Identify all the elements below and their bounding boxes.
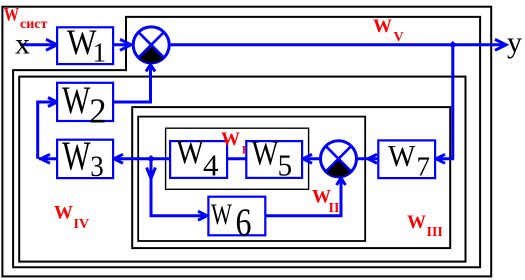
svg-text:W: W [62,79,90,122]
node branch to W6 [147,155,155,163]
node feedback tap [449,41,457,49]
svg-text:3: 3 [90,150,104,183]
svg-text:II: II [329,201,340,216]
arrow W7 to sum2 [368,154,377,163]
wire W4 to W3 [113,157,169,160]
wire branch down [150,159,153,216]
arrow into sum2 bottom [337,178,346,185]
svg-text:III: III [427,225,443,240]
arrow into W3 [114,154,123,163]
arrow W3 out [41,154,50,163]
summing junction sum1 [133,27,169,63]
block W4 [170,134,227,183]
svg-text:5: 5 [278,149,293,183]
wire sum1 to y output [170,43,503,46]
block W1 [57,22,113,68]
boundary rect W_I [166,128,309,189]
boundary rect W_II [138,117,365,241]
svg-text:6: 6 [236,200,252,244]
svg-text:1: 1 [93,38,107,68]
svg-text:4: 4 [203,149,219,183]
wire W2 out [112,65,151,102]
svg-text:x: x [15,28,30,61]
svg-text:7: 7 [417,151,431,181]
arrow into W5 [303,154,312,163]
arrow into sum1 bottom [146,65,155,72]
svg-text:W: W [388,139,416,173]
block W6 [208,197,265,244]
label W_IV [54,203,89,233]
arrow y output [495,39,506,50]
wire sum2 to W5 [303,157,321,160]
arrow into sum1 [120,39,131,50]
label W_sist [4,5,48,32]
wire W7 to sum2 [357,157,378,160]
svg-text:W: W [252,134,279,172]
boundary polygon W_V (stepped) [13,17,480,267]
wire W6 out [266,179,341,216]
wire W3 to W2 riser [38,102,56,159]
svg-text:W: W [54,203,73,224]
svg-text:y: y [507,26,522,59]
arrow into W1 [46,39,57,50]
svg-text:сист: сист [20,17,47,32]
svg-text:W: W [221,129,240,150]
block W5 [246,134,302,182]
wire W1 to sum1 [113,43,133,46]
svg-text:IV: IV [74,217,90,232]
svg-text:W: W [4,5,19,26]
svg-text:V: V [394,30,404,45]
wire W3 out left [39,157,57,160]
wire feedback drop [451,45,454,159]
summing junction sum2 [321,141,357,177]
block W3 [57,133,113,182]
wire x input [20,43,56,46]
svg-text:W: W [211,198,233,231]
wire branch to W6 [150,214,207,217]
boundary rect W_III [132,107,450,248]
label W_I [221,129,247,156]
svg-text:W: W [62,133,91,178]
wire W5 to W4 [228,157,246,160]
arrow into W7 [436,154,445,163]
svg-text:2: 2 [89,92,106,131]
arrow into W2 [48,98,57,107]
label W_III [407,212,443,240]
label W_II [312,187,339,217]
svg-text:W: W [176,134,204,171]
arrow into W6 [198,211,207,220]
block W2 [57,79,113,131]
wire drop to W7 [436,157,454,160]
svg-text:W: W [373,16,392,37]
arrow branch down mid [147,168,156,179]
block W7 [378,139,435,182]
label W_V [373,16,404,45]
svg-text:W: W [407,212,426,233]
boundary rect W_IV [19,77,465,262]
svg-text:I: I [242,144,247,156]
